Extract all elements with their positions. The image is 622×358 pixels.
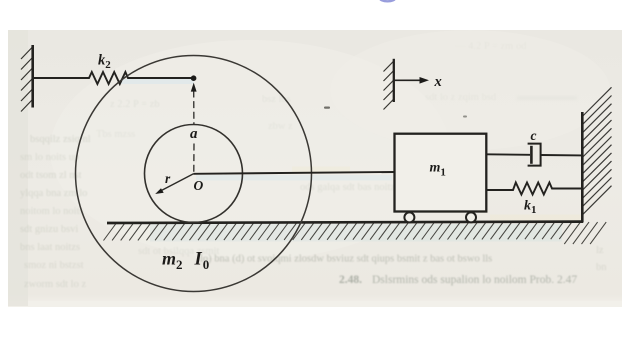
left wall xyxy=(31,45,34,108)
svg-text:2.48.: 2.48. xyxy=(339,274,362,286)
ground hatching xyxy=(104,222,607,244)
svg-text:Dslsrmins ods supalion lo noil: Dslsrmins ods supalion lo noilom Prob. 2… xyxy=(372,274,577,286)
blue icon cropped at top xyxy=(379,0,396,3)
damper c cylinder xyxy=(528,144,541,166)
dashed a-dimension line xyxy=(193,91,195,125)
arrowhead of dimension a xyxy=(191,83,197,92)
big circle (outer cylinder m2) xyxy=(76,56,312,292)
radius arrow r xyxy=(159,174,194,192)
svg-text:lz: lz xyxy=(596,245,604,256)
damper c piston xyxy=(530,146,533,164)
svg-text:— 4.2 P = zm od: — 4.2 P = zm od xyxy=(454,41,527,52)
svg-text:noitom lo noits: noitom lo noits xyxy=(20,206,84,217)
ground line xyxy=(107,222,583,223)
svg-text:bns laat noitzs: bns laat noitzs xyxy=(20,242,80,253)
connecting rod from O to m1 xyxy=(194,172,395,174)
spring k2 xyxy=(34,72,194,84)
wire damper c to right wall xyxy=(541,154,583,156)
svg-text:a: a xyxy=(190,126,198,142)
svg-text:sm lo noits up: sm lo noits up xyxy=(20,152,79,163)
svg-text:zbw z: zbw z xyxy=(268,121,293,132)
bleed-through text rows (show-through from reverse page) xyxy=(20,41,607,290)
scanned page region xyxy=(8,30,622,306)
right wall xyxy=(581,112,584,223)
svg-text:x: x xyxy=(434,74,442,90)
svg-text:lo) bna (d) ot svoiqmi zlosdw: lo) bna (d) ot svoiqmi zlosdw bsviuz sdt… xyxy=(200,254,492,265)
inner circle (radius r) xyxy=(145,125,243,223)
svg-text:sdt lo z zqim bsd: sdt lo z zqim bsd xyxy=(425,92,497,103)
spring k1 xyxy=(487,183,583,195)
scan colour tint strips xyxy=(120,79,194,84)
wire m1 to damper c xyxy=(487,153,531,156)
svg-text:sdt gnizu bsvi: sdt gnizu bsvi xyxy=(20,224,78,235)
svg-text:bsz lbs: bsz lbs xyxy=(262,94,291,105)
svg-text:smoz ni bstzst: smoz ni bstzst xyxy=(24,260,84,271)
left wall hatch xyxy=(21,47,33,112)
svg-text:bn: bn xyxy=(596,262,607,273)
hatch band blue-green wash xyxy=(150,224,562,242)
lighter patch center xyxy=(50,40,450,260)
svg-text:Tbs mzss: Tbs mzss xyxy=(96,129,135,140)
svg-text:z 2.2 P = zb: z 2.2 P = zb xyxy=(110,99,160,110)
tiny specks xyxy=(324,107,330,109)
mass m1 box xyxy=(395,134,487,212)
svg-text:O: O xyxy=(194,178,204,193)
wheel right of m1 xyxy=(466,212,476,222)
attachment dot xyxy=(191,75,197,81)
svg-text:zworm sdt lo z: zworm sdt lo z xyxy=(24,279,86,290)
x reference wall xyxy=(384,61,394,110)
right wall hatch xyxy=(583,87,612,214)
x arrow xyxy=(394,79,421,81)
left edge darker strip xyxy=(8,30,28,306)
svg-text:c: c xyxy=(531,128,537,143)
svg-text:odt tsom zl nst: odt tsom zl nst xyxy=(20,170,82,181)
svg-text:r: r xyxy=(165,171,171,186)
wheel left of m1 xyxy=(404,212,414,222)
